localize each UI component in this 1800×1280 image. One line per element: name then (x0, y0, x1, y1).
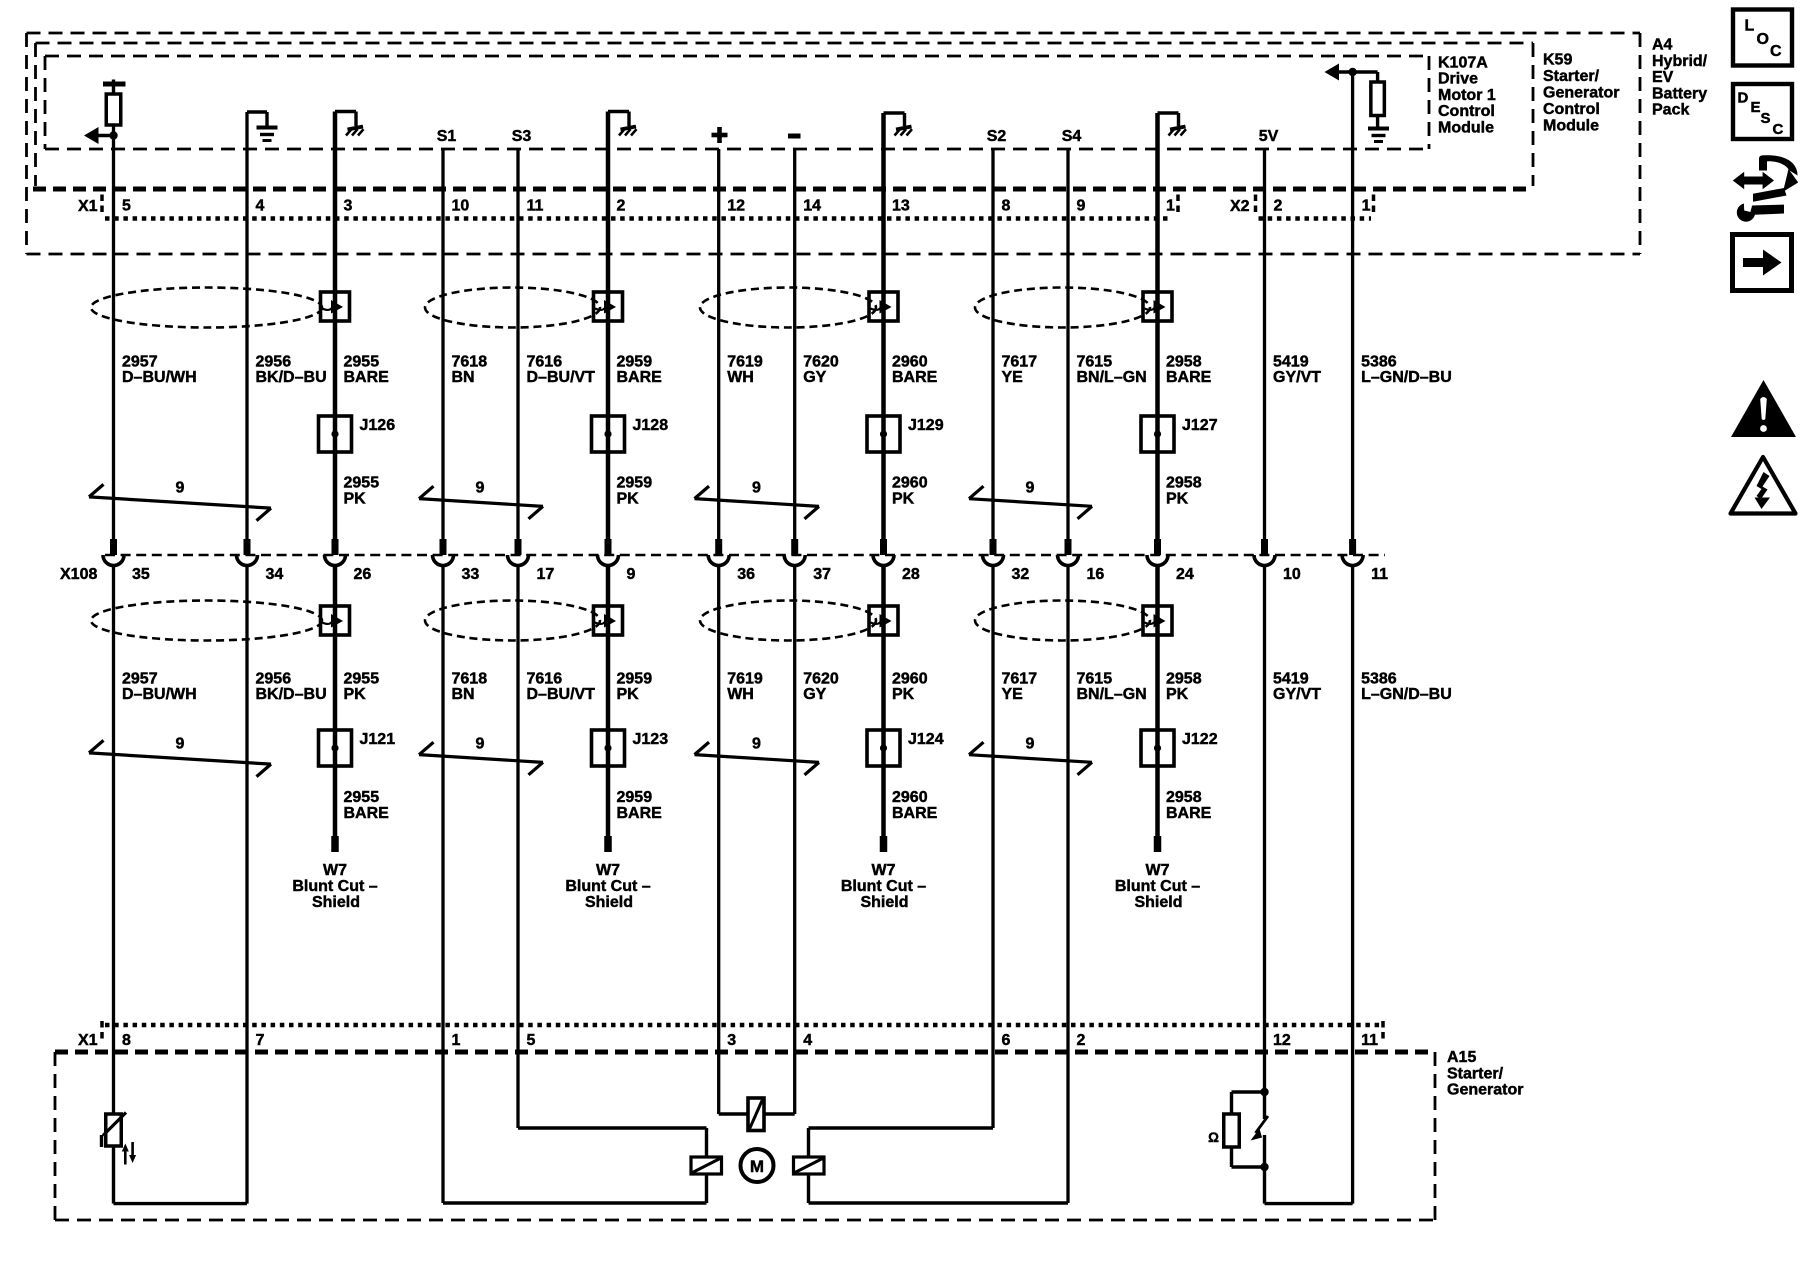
module box A4 Hybrid/EV Battery Pack (outer dashed) (27, 33, 1641, 254)
svg-text:BARE: BARE (1166, 369, 1212, 386)
label 2958 BARE (below J122) (1166, 789, 1212, 822)
junction dot (circuit 2957 top) (109, 131, 117, 139)
label A15 Starter/Generator (1447, 1049, 1523, 1099)
label 2959 PK (below J128) (617, 475, 653, 508)
label 2955 BARE (below J121) (344, 789, 390, 822)
label 5386 L-GN/D-BU (upper) (1361, 354, 1452, 387)
signal arrow left (circuit 5386 top, inside K59) (1325, 64, 1378, 81)
svg-text:A4: A4 (1652, 37, 1673, 54)
svg-text:5386: 5386 (1361, 354, 1397, 371)
pin 4 (X1 top) (256, 198, 265, 215)
signal arrow left (circuit 2957) (84, 127, 114, 144)
svg-text:9: 9 (752, 480, 761, 497)
junction dot (sensor top, A15) (1260, 1088, 1268, 1096)
chassis ground (X1 pin 13 wire) (884, 113, 913, 136)
splice J123 (592, 730, 669, 766)
icon warning triangle (1731, 380, 1796, 437)
terminal stub and cup at X108 (wire 2958) (1147, 539, 1168, 566)
svg-text:2957: 2957 (122, 354, 158, 371)
pin 11 (X108) (1371, 566, 1388, 583)
svg-text:8: 8 (122, 1032, 131, 1049)
pin 1 (X2) (1362, 198, 1371, 215)
wire 2960 shield (lower run) (881, 566, 886, 836)
svg-text:C: C (1773, 121, 1784, 138)
svg-text:3: 3 (344, 198, 353, 215)
blunt cut shield end W7 (circuit 2959) (565, 836, 650, 911)
wire pin1-to-brush (A15) (443, 1174, 707, 1203)
label 2955 BARE (upper) (344, 354, 390, 387)
svg-text:12: 12 (727, 198, 745, 215)
label 2956 BK/D-BU (upper) (256, 354, 327, 387)
svg-text:13: 13 (892, 198, 910, 215)
label S4 (1062, 128, 1082, 145)
svg-text:2: 2 (617, 198, 626, 215)
svg-text:X1: X1 (78, 1032, 98, 1049)
svg-text:16: 16 (1087, 566, 1105, 583)
terminal stub and cup at X108 (wire 2955) (325, 539, 346, 566)
svg-text:GY: GY (803, 369, 826, 386)
svg-text:W7: W7 (1146, 862, 1170, 879)
svg-text:2960: 2960 (892, 671, 928, 688)
svg-text:7616: 7616 (527, 354, 563, 371)
connector X1 dotted line (105, 216, 1172, 220)
connector face A15 top (heavy dashed line) (55, 1050, 1435, 1055)
connector X1 label (A15 bottom) (78, 1032, 98, 1049)
svg-text:A15: A15 (1447, 1049, 1476, 1066)
shield ellipse (circuit 2958, lower) (975, 601, 1150, 641)
svg-text:10: 10 (1283, 566, 1301, 583)
svg-text:7618: 7618 (452, 671, 488, 688)
pin 9 (X108) (627, 566, 636, 583)
svg-text:K59: K59 (1543, 52, 1572, 69)
svg-text:BK/D–BU: BK/D–BU (256, 369, 327, 386)
svg-text:PK: PK (1166, 491, 1189, 508)
connector face K59 bottom (heavy dashed line) (33, 187, 1533, 192)
wire 7615 BN/L-GN (lower run) (1066, 566, 1069, 1203)
svg-text:E: E (1751, 99, 1761, 116)
svg-text:7620: 7620 (803, 354, 839, 371)
label 2956 BK/D-BU (lower) (256, 671, 327, 704)
splice J128 (592, 416, 669, 452)
wire 7617 YE (lower run) (991, 566, 994, 1128)
connector X108 label (60, 566, 97, 583)
svg-text:2960: 2960 (892, 789, 928, 806)
svg-text:1: 1 (452, 1032, 461, 1049)
svg-text:9: 9 (176, 480, 185, 497)
wire 2956 BK/D-BU (lower run) (245, 566, 248, 1204)
svg-text:8: 8 (1002, 198, 1011, 215)
svg-text:35: 35 (132, 566, 150, 583)
svg-text:5: 5 (122, 198, 131, 215)
wire 5419 GY/VT (lower run) (1263, 566, 1266, 1092)
label 2958 BARE (upper) (1166, 354, 1212, 387)
terminal stub and cup at X108 (wire 7616) (508, 539, 529, 566)
label 7617 YE (lower) (1002, 671, 1038, 704)
pin 10 (X108) (1283, 566, 1301, 583)
svg-text:S3: S3 (512, 128, 532, 145)
label S3 (512, 128, 532, 145)
svg-text:BARE: BARE (344, 369, 390, 386)
svg-text:Blunt Cut –: Blunt Cut – (565, 878, 650, 895)
connector X1 pin separator after pin 1 (1176, 195, 1180, 213)
svg-text:BARE: BARE (892, 369, 938, 386)
label 2958 PK (below J127) (1166, 475, 1202, 508)
svg-text:BN: BN (452, 686, 475, 703)
svg-text:M: M (750, 1157, 764, 1176)
wire 5386 L-GN/D-BU (lower run) (1351, 566, 1354, 1204)
wire 7618 BN (upper run) (441, 149, 444, 539)
svg-text:Generator: Generator (1447, 1082, 1523, 1099)
svg-text:L: L (1745, 18, 1755, 35)
svg-text:W7: W7 (596, 862, 620, 879)
wire brush-to-pin6 (A15) (809, 1128, 994, 1157)
label 2959 BARE (upper) (617, 354, 663, 387)
shield termination box (circuit 2960, lower) (869, 606, 898, 635)
svg-text:37: 37 (813, 566, 831, 583)
svg-text:7615: 7615 (1077, 671, 1113, 688)
svg-text:Shield: Shield (1134, 894, 1182, 911)
harness marker 9 wires (lower) (969, 736, 1092, 775)
svg-text:2959: 2959 (617, 789, 653, 806)
svg-text:2959: 2959 (617, 354, 653, 371)
harness marker 9 wires (lower) (419, 736, 543, 775)
shield ellipse (circuit 2955, upper) (91, 288, 322, 328)
svg-text:2957: 2957 (122, 671, 158, 688)
label S2 (987, 128, 1007, 145)
harness marker 9 wires (upper) (419, 480, 543, 519)
pin 1 (X1 bottom) (452, 1032, 461, 1049)
svg-text:GY: GY (803, 686, 826, 703)
shield termination box (circuit 2959, upper) (594, 292, 623, 321)
connector X1 separator (100, 195, 104, 213)
svg-text:28: 28 (902, 566, 920, 583)
svg-text:Module: Module (1543, 118, 1599, 135)
svg-text:S1: S1 (437, 128, 457, 145)
label 2960 BARE (below J124) (892, 789, 938, 822)
wire 7620 GY (lower run) (793, 566, 796, 1114)
pin 34 (X108) (266, 566, 284, 583)
svg-text:PK: PK (344, 491, 367, 508)
svg-text:C: C (1770, 43, 1782, 60)
svg-text:YE: YE (1002, 686, 1024, 703)
wire 2956 BK/D-BU (upper run) (245, 112, 248, 539)
svg-text:9: 9 (1026, 480, 1035, 497)
svg-text:S2: S2 (987, 128, 1007, 145)
svg-text:D–BU/VT: D–BU/VT (527, 686, 596, 703)
chassis ground (X1 pin 1 wire) (1158, 113, 1187, 136)
pin 17 (X108) (537, 566, 555, 583)
pin 7 (X1 bottom) (256, 1032, 265, 1049)
pin 2 (X1 bottom) (1077, 1032, 1086, 1049)
icon electrical hazard triangle (1731, 457, 1796, 514)
svg-text:2956: 2956 (256, 671, 292, 688)
connector X2 dotted line (1259, 216, 1372, 220)
terminal stub and cup at X108 (wire 7618) (433, 539, 454, 566)
svg-text:1: 1 (1362, 198, 1371, 215)
junction dot (circuit 5386 top) (1348, 68, 1356, 76)
svg-text:Blunt Cut –: Blunt Cut – (841, 878, 926, 895)
svg-text:2955: 2955 (344, 789, 380, 806)
svg-text:2958: 2958 (1166, 354, 1202, 371)
wire sensor loop to pin 11 (A15) (1265, 1167, 1353, 1204)
resistor inside K107A (top of circuit 2957) (103, 80, 126, 126)
svg-text:9: 9 (752, 736, 761, 753)
pin 3 (X1 top) (344, 198, 353, 215)
harness marker 9 wires (lower) (89, 736, 271, 777)
variable resistor with ohm symbol (A15) (1208, 1092, 1268, 1167)
terminal stub and cup at X108 (wire 2960) (873, 539, 894, 566)
svg-text:X108: X108 (60, 566, 97, 583)
svg-text:36: 36 (737, 566, 755, 583)
label - (minus) (788, 134, 801, 139)
svg-text:7: 7 (256, 1032, 265, 1049)
pin 36 (X108) (737, 566, 755, 583)
svg-text:PK: PK (892, 491, 915, 508)
svg-text:PK: PK (1166, 686, 1189, 703)
pin 10 (X1 top) (452, 198, 470, 215)
blunt cut shield end W7 (circuit 2960) (841, 836, 926, 911)
wire 5386 L-GN/D-BU (upper run) (1351, 72, 1354, 539)
label 2959 BARE (below J123) (617, 789, 663, 822)
shield ellipse (circuit 2960, lower) (700, 601, 876, 641)
svg-text:7619: 7619 (727, 354, 763, 371)
shield ellipse (circuit 2959, lower) (425, 601, 600, 641)
splice J122 (1141, 730, 1218, 766)
pin 3 (X1 bottom) (727, 1032, 736, 1049)
pin 12 (X1 bottom) (1273, 1032, 1291, 1049)
svg-text:5: 5 (527, 1032, 536, 1049)
svg-text:5386: 5386 (1361, 671, 1397, 688)
label 2960 PK (lower) (892, 671, 928, 704)
wire 5419 GY/VT (upper run) (1263, 149, 1266, 539)
wire 7620 GY (upper run) (793, 149, 796, 539)
label 5V (1259, 128, 1279, 145)
svg-text:O: O (1757, 31, 1769, 48)
svg-text:D–BU/WH: D–BU/WH (122, 686, 197, 703)
brush (left) of starter/generator (691, 1157, 722, 1174)
svg-text:2956: 2956 (256, 354, 292, 371)
splice J126 (319, 416, 396, 452)
svg-text:BARE: BARE (892, 805, 938, 822)
label 2960 PK (below J129) (892, 475, 928, 508)
pin 1 (X1 top) (1166, 198, 1175, 215)
shield termination box (circuit 2960, upper) (869, 292, 898, 321)
wire 2959 shield (upper run) (606, 112, 611, 540)
label 2957 D-BU/WH (upper) (122, 354, 197, 387)
svg-text:2: 2 (1274, 198, 1283, 215)
svg-text:5419: 5419 (1273, 671, 1309, 688)
splice J124 (867, 730, 944, 766)
svg-text:9: 9 (1077, 198, 1086, 215)
harness marker 9 wires (lower) (695, 736, 820, 775)
label 7620 GY (upper) (803, 354, 839, 387)
pin 32 (X108) (1012, 566, 1030, 583)
svg-text:J129: J129 (908, 417, 944, 434)
connector X2 end separator (1372, 195, 1376, 213)
thermistor (temperature sensor) in A15 (102, 1113, 137, 1165)
fuse element between pins 3 and 4 (A15) (719, 1098, 795, 1131)
pin 12 (X1 top) (727, 198, 745, 215)
svg-text:J128: J128 (633, 417, 669, 434)
svg-text:6: 6 (1002, 1032, 1011, 1049)
label 7615 BN/L-GN (lower) (1077, 671, 1147, 704)
terminal stub and cup at X108 (wire 5386) (1342, 539, 1363, 566)
connector X1 separator (A15) (100, 1021, 104, 1039)
label 2958 PK (lower) (1166, 671, 1202, 704)
terminal stub and cup at X108 (wire 7615) (1058, 539, 1079, 566)
brush (right) of starter/generator (794, 1157, 825, 1174)
pin 8 (X1 top) (1002, 198, 1011, 215)
label K59 Starter/Generator Control Module (1543, 52, 1619, 135)
label 7620 GY (lower) (803, 671, 839, 704)
svg-text:Ω: Ω (1208, 1130, 1219, 1145)
svg-text:2: 2 (1077, 1032, 1086, 1049)
svg-text:11: 11 (527, 198, 544, 215)
svg-text:2955: 2955 (344, 671, 380, 688)
pin 24 (X108) (1176, 566, 1194, 583)
module box K59 Starter/Generator Control Module (dashed) (36, 43, 1534, 186)
wire 2958 shield (upper run) (1155, 113, 1160, 539)
label K107A Drive Motor 1 Control Module (1438, 55, 1496, 137)
svg-text:2960: 2960 (892, 475, 928, 492)
pin 5 (X1 top) (122, 198, 131, 215)
label 5419 GY/VT (upper) (1273, 354, 1321, 387)
label S1 (437, 128, 457, 145)
svg-text:2958: 2958 (1166, 789, 1202, 806)
wire 7619 WH (upper run) (717, 149, 720, 539)
svg-text:Pack: Pack (1652, 102, 1689, 119)
harness marker 9 wires (upper) (969, 480, 1092, 519)
svg-text:EV: EV (1652, 69, 1674, 86)
svg-text:Shield: Shield (860, 894, 908, 911)
svg-text:5V: 5V (1259, 128, 1279, 145)
svg-text:S: S (1761, 110, 1771, 127)
svg-text:Blunt Cut –: Blunt Cut – (1115, 878, 1200, 895)
resistor to ground (circuit 5386, inside K59) (1368, 72, 1389, 142)
svg-text:7616: 7616 (527, 671, 563, 688)
svg-text:14: 14 (803, 198, 821, 215)
label A4 Hybrid/EV Battery Pack (1652, 37, 1708, 119)
terminal stub and cup at X108 (wire 2956) (237, 539, 258, 566)
label 7615 BN/L-GN (upper) (1077, 354, 1147, 387)
label 7616 D-BU/VT (lower) (527, 671, 596, 704)
svg-text:BARE: BARE (344, 805, 390, 822)
svg-text:4: 4 (256, 198, 265, 215)
svg-text:2960: 2960 (892, 354, 928, 371)
svg-text:9: 9 (476, 736, 485, 753)
svg-text:X1: X1 (78, 198, 98, 215)
svg-text:9: 9 (627, 566, 636, 583)
wire 2955 shield (lower run) (333, 566, 338, 836)
svg-text:32: 32 (1012, 566, 1030, 583)
wire 7616 D-BU/VT (lower run) (516, 566, 519, 1128)
svg-text:WH: WH (727, 369, 754, 386)
icon forward arrow box (1733, 235, 1792, 291)
shield termination box (circuit 2955, upper) (321, 292, 350, 321)
svg-text:PK: PK (617, 686, 640, 703)
svg-text:2959: 2959 (617, 671, 653, 688)
svg-text:W7: W7 (872, 862, 896, 879)
wire 2960 shield (upper run) (881, 113, 886, 539)
svg-text:W7: W7 (323, 862, 347, 879)
svg-text:2958: 2958 (1166, 475, 1202, 492)
label 2959 PK (lower) (617, 671, 653, 704)
label 2955 PK (below J126) (344, 475, 380, 508)
icon DESC box (1733, 84, 1792, 139)
svg-text:L–GN/D–BU: L–GN/D–BU (1361, 686, 1452, 703)
label 2957 D-BU/WH (lower) (122, 671, 197, 704)
terminal stub and cup at X108 (wire 7620) (784, 539, 805, 566)
svg-text:12: 12 (1273, 1032, 1291, 1049)
label 7619 WH (upper) (727, 354, 763, 387)
svg-text:Hybrid/: Hybrid/ (1652, 53, 1708, 70)
pin 6 (X1 bottom) (1002, 1032, 1011, 1049)
terminal stub and cup at X108 (wire 7617) (983, 539, 1004, 566)
pin 26 (X108) (354, 566, 372, 583)
svg-text:Control: Control (1438, 103, 1495, 120)
svg-text:BN/L–GN: BN/L–GN (1077, 686, 1147, 703)
svg-text:7618: 7618 (452, 354, 488, 371)
svg-text:26: 26 (354, 566, 372, 583)
wire 2957 D-BU/WH (lower run) (112, 566, 115, 1114)
svg-text:Control: Control (1543, 101, 1600, 118)
svg-text:7615: 7615 (1077, 354, 1113, 371)
module box A15 Starter/Generator (dashed) (55, 1052, 1435, 1220)
shield termination box (circuit 2958, upper) (1143, 292, 1172, 321)
shield termination box (circuit 2959, lower) (594, 606, 623, 635)
svg-text:9: 9 (176, 736, 185, 753)
chassis ground (X1 pin 3 wire) (335, 112, 364, 136)
svg-text:10: 10 (452, 198, 470, 215)
splice J127 (1141, 416, 1218, 452)
label 2955 PK (lower) (344, 671, 380, 704)
label 7618 BN (lower) (452, 671, 488, 704)
wire 2957 D-BU/WH (upper run) (112, 125, 115, 539)
connector X1 dotted line (A15) (105, 1023, 1380, 1027)
pin 11 (X1 top) (527, 198, 544, 215)
svg-text:S4: S4 (1062, 128, 1082, 145)
svg-text:K107A: K107A (1438, 55, 1488, 72)
svg-text:9: 9 (476, 480, 485, 497)
pin 33 (X108) (462, 566, 480, 583)
svg-text:J124: J124 (908, 731, 944, 748)
icon LOC box (1733, 10, 1792, 66)
earth ground (X1 pin 4 wire) (247, 112, 278, 141)
wire 2959 shield (lower run) (606, 566, 611, 836)
label 7617 YE (upper) (1002, 354, 1038, 387)
svg-text:2955: 2955 (344, 354, 380, 371)
svg-text:J126: J126 (360, 417, 396, 434)
shield termination box (circuit 2958, lower) (1143, 606, 1172, 635)
svg-text:Battery: Battery (1652, 85, 1707, 102)
pin 9 (X1 top) (1077, 198, 1086, 215)
svg-text:J123: J123 (633, 731, 669, 748)
connector X108 dashed line (105, 554, 1385, 557)
svg-text:Shield: Shield (312, 894, 360, 911)
pin 5 (X1 bottom) (527, 1032, 536, 1049)
svg-text:9: 9 (1026, 736, 1035, 753)
wire 2955 shield (upper run) (333, 112, 338, 540)
wire 7615 BN/L-GN (upper run) (1066, 149, 1069, 539)
terminal stub and cup at X108 (wire 5419) (1254, 539, 1275, 566)
pin 14 (X1 top) (803, 198, 821, 215)
svg-text:Generator: Generator (1543, 85, 1619, 102)
svg-text:GY/VT: GY/VT (1273, 686, 1321, 703)
svg-text:PK: PK (344, 686, 367, 703)
svg-text:Starter/: Starter/ (1447, 1065, 1504, 1082)
label 5386 L-GN/D-BU (lower) (1361, 671, 1452, 704)
svg-text:1: 1 (1166, 198, 1175, 215)
